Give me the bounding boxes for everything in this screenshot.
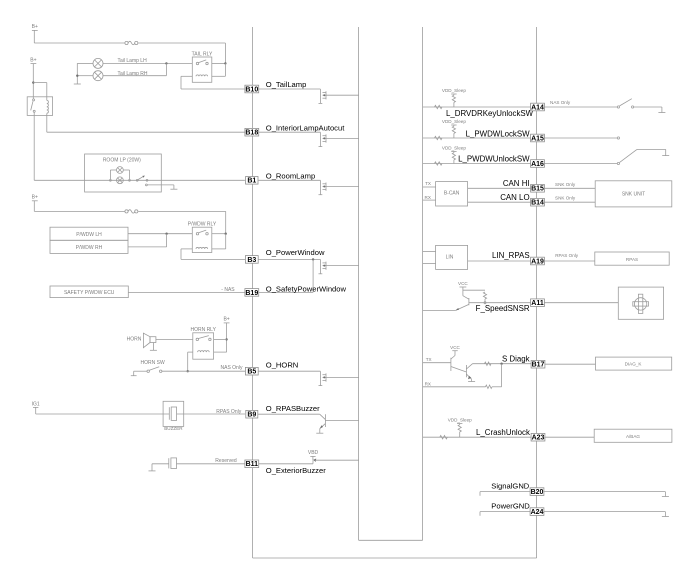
pin B5 <box>245 367 258 375</box>
wire diag output to pin B17 <box>473 363 532 365</box>
svg-text:LIN_RPAS: LIN_RPAS <box>492 251 530 260</box>
wire CAN HI to pin B15 <box>468 187 531 189</box>
power VCC (diag) <box>450 345 460 356</box>
lamp Tail Lamp RH <box>93 71 103 81</box>
wire room lamp row inside box <box>85 179 245 181</box>
svg-text:A24: A24 <box>531 509 544 516</box>
svg-text:O_TailLamp: O_TailLamp <box>266 80 307 89</box>
wire RX stub <box>423 199 436 201</box>
pin B18 <box>245 128 259 136</box>
power IG1 <box>32 401 40 407</box>
svg-text:VDD_Sleep: VDD_Sleep <box>442 146 466 151</box>
buzzer piezo element (reserved) <box>169 458 177 469</box>
wire door switch to ground <box>147 185 174 189</box>
svg-text:SAFETY P/WDW ECU: SAFETY P/WDW ECU <box>64 290 115 296</box>
svg-text:F_SpeedSNSR: F_SpeedSNSR <box>476 304 530 313</box>
pin B15 <box>531 185 545 193</box>
wire row A15 <box>423 137 531 139</box>
wire tail lamps left to ground <box>76 63 93 84</box>
box SNK UNIT <box>595 181 672 207</box>
wire pin B1 to room lamp driver gate <box>258 179 320 181</box>
wire horn switch to pin B5 <box>162 370 246 372</box>
resistor series diag TX <box>485 362 492 365</box>
resistor series A16 <box>435 162 443 165</box>
svg-text:SNK Only: SNK Only <box>555 196 576 201</box>
svg-text:RX: RX <box>425 381 431 386</box>
buzzer BUZZER <box>163 401 184 431</box>
wire fuse 2 to window relay common <box>138 211 225 233</box>
ground exterior buzzer <box>149 470 156 472</box>
relay HORN RLY <box>190 327 216 359</box>
pin A14 <box>531 103 545 111</box>
wire buzzer to pin B9 <box>177 413 246 415</box>
power VCC (speed sensor) <box>458 281 468 296</box>
svg-text:B14: B14 <box>531 200 544 207</box>
svg-text:L_PWDWUnlockSW: L_PWDWUnlockSW <box>458 155 530 164</box>
wire relay switch down to room lamp row <box>34 112 84 180</box>
svg-text:O_RPASBuzzer: O_RPASBuzzer <box>266 404 320 413</box>
wire LIN stub upper <box>423 250 436 252</box>
wire IG1 to buzzer <box>36 407 170 414</box>
wire B+ down to fuse feed <box>34 30 125 43</box>
svg-text:B-CAN: B-CAN <box>444 190 460 196</box>
wire window RH up to junction <box>128 234 167 247</box>
ground horn <box>150 349 157 351</box>
wire pin B18 to autocut driver gate <box>259 131 321 133</box>
transistor VBD switch arrow <box>313 459 316 462</box>
svg-text:B+: B+ <box>32 24 38 30</box>
wire window relay coil to pin B3 <box>181 249 246 260</box>
pin A11 <box>531 299 545 307</box>
svg-text:TX: TX <box>425 181 431 186</box>
wire relay coil to pin B18 <box>47 113 245 132</box>
wire PowerGND external <box>544 512 665 517</box>
wire A11 to sensor unit <box>544 302 618 304</box>
svg-text:Tail Lamp LH: Tail Lamp LH <box>118 58 148 64</box>
transistor Q7 speed sensor input <box>456 296 469 311</box>
transistor Q1 O_TailLamp driver <box>319 89 359 103</box>
pin A24 <box>530 508 544 516</box>
wire B15 to SNK UNIT <box>544 187 595 189</box>
op-amp U1 B-CAN transceiver <box>436 182 468 206</box>
pin A15 <box>531 134 545 142</box>
transistor Q9 diag driver <box>466 364 472 382</box>
svg-text:A/BAG: A/BAG <box>626 434 640 439</box>
ground window switch <box>662 155 669 157</box>
pin B10 <box>245 85 259 93</box>
node B+ branch <box>32 81 34 83</box>
node diag junction <box>500 363 502 365</box>
power VBD <box>308 450 319 460</box>
wire row A23 <box>423 436 531 438</box>
wire ECU bottom edge <box>253 557 537 559</box>
svg-text:B+: B+ <box>223 317 229 323</box>
svg-text:NAS Only: NAS Only <box>221 365 243 371</box>
wire CAN LO to pin B14 <box>468 201 531 203</box>
svg-text:DIAG_K: DIAG_K <box>625 362 643 367</box>
svg-text:VDD_Sleep: VDD_Sleep <box>442 119 466 124</box>
svg-text:A11: A11 <box>531 300 544 307</box>
svg-text:VBD: VBD <box>308 450 319 456</box>
wire pin B3 to window driver gate <box>258 258 320 260</box>
wire left column east edge / drain bus <box>358 27 360 540</box>
svg-text:RPAS Only: RPAS Only <box>555 253 579 258</box>
box ROOM LP (20W) <box>85 154 162 192</box>
wire tail lamp LH to relay <box>103 62 192 64</box>
svg-text:O_RoomLamp: O_RoomLamp <box>266 171 315 180</box>
svg-text:B11: B11 <box>246 461 259 468</box>
pin B11 <box>245 460 259 468</box>
pin B9 <box>246 410 258 418</box>
svg-text:RPAS: RPAS <box>626 257 638 262</box>
svg-text:- NAS: - NAS <box>221 287 235 293</box>
svg-text:VCC: VCC <box>450 345 460 350</box>
wire A15 to lock switch contact <box>544 137 617 139</box>
power B+ (power window feed) <box>32 195 38 201</box>
wire A19 to RPAS unit <box>544 260 594 262</box>
lamp room lamp upper <box>110 167 131 182</box>
svg-text:B+: B+ <box>32 195 38 201</box>
wire tail relay contact to B+ branch <box>212 62 227 76</box>
wire A23 to airbag unit <box>545 436 594 438</box>
wire ECU inner bottom notch <box>359 539 423 541</box>
wire A14 to key switch <box>544 106 617 108</box>
ground PowerGND <box>662 516 669 518</box>
power B+ (room lamp feed) <box>30 57 36 63</box>
svg-text:HORN: HORN <box>127 337 142 343</box>
transistor Q2 O_InteriorLampAutocut driver <box>319 132 359 146</box>
svg-text:S Diagk: S Diagk <box>502 355 530 364</box>
wire piezo to pin B11 <box>177 463 246 465</box>
svg-text:P/WDW RLY: P/WDW RLY <box>188 222 217 228</box>
svg-text:B10: B10 <box>245 86 258 93</box>
svg-text:B19: B19 <box>245 290 258 297</box>
svg-text:SNK Only: SNK Only <box>555 182 576 187</box>
svg-text:CAN HI: CAN HI <box>503 179 530 188</box>
op-amp U2 LIN transceiver <box>436 245 468 269</box>
svg-text:B3: B3 <box>247 257 256 264</box>
transistor Q4 O_PowerWindow driver <box>319 259 359 273</box>
label VDD_Sleep pull-up A14 / resistor <box>442 88 466 107</box>
power B+ (tail lamp feed) <box>32 24 38 30</box>
pin B20 <box>530 488 544 496</box>
svg-text:A16: A16 <box>531 161 544 168</box>
box SAFETY P/WDW ECU <box>50 286 128 298</box>
pin A19 <box>531 257 545 265</box>
pin B19 <box>245 289 259 297</box>
relay interior lamp cut relay <box>27 97 52 116</box>
svg-text:VCC: VCC <box>458 281 468 286</box>
pin B17 <box>531 360 545 368</box>
svg-text:O_ExteriorBuzzer: O_ExteriorBuzzer <box>266 466 326 475</box>
wire horn B+ to relay <box>214 323 228 352</box>
svg-text:B18: B18 <box>245 130 258 137</box>
pin A23 <box>531 433 545 441</box>
label VDD_Sleep pull-up A23 / resistor <box>448 418 472 438</box>
svg-text:Reserved: Reserved <box>215 458 237 464</box>
svg-text:ROOM LP (20W): ROOM LP (20W) <box>103 157 141 163</box>
svg-text:TAIL RLY: TAIL RLY <box>192 51 213 57</box>
box P/WDW RH motor <box>50 240 128 253</box>
box speed sensor unit <box>618 287 663 319</box>
label VDD_Sleep pull-up A15 / resistor <box>442 119 466 138</box>
wire SignalGND external <box>544 492 665 497</box>
pin B1 <box>246 177 258 185</box>
wire horn to relay <box>156 338 193 340</box>
pin A16 <box>531 160 545 168</box>
node window junction <box>165 233 167 235</box>
wire speed sensor to pin A11 <box>469 302 531 304</box>
wire TX stub <box>423 186 436 188</box>
svg-text:P/WDW LH: P/WDW LH <box>76 232 102 238</box>
svg-text:O_PowerWindow: O_PowerWindow <box>266 248 325 257</box>
svg-text:SignalGND: SignalGND <box>491 481 529 490</box>
fuse F1 tail lamp <box>125 41 138 44</box>
switch power window lock/unlock switch <box>617 149 665 164</box>
label VDD_Sleep pull-up A16 / resistor <box>442 146 466 164</box>
wire pin B11 to VBD switch <box>259 460 313 464</box>
wire tail lamp RH up to junction <box>103 63 166 75</box>
svg-text:O_InteriorLampAutocut: O_InteriorLampAutocut <box>266 123 345 132</box>
svg-text:SNK UNIT: SNK UNIT <box>622 192 645 198</box>
wire LIN to pin A19 <box>468 260 531 262</box>
resistor pull-up speed sensor <box>463 290 487 304</box>
wire A16 to unlock switch <box>544 163 617 165</box>
transistor Q5 O_HORN driver <box>319 371 359 385</box>
node tail lamp junction <box>165 62 167 64</box>
wire pin B9 to buzzer transistor base <box>258 413 320 415</box>
wire safety ECU to pin B19 <box>128 291 245 293</box>
svg-text:A19: A19 <box>531 258 544 265</box>
svg-text:B17: B17 <box>532 362 545 369</box>
svg-text:HORN RLY: HORN RLY <box>190 327 216 333</box>
pin B14 <box>531 198 545 206</box>
wire B+ down to branch node <box>32 64 34 99</box>
lamp Tail Lamp LH <box>93 58 103 68</box>
wire B14 to SNK UNIT <box>544 201 595 203</box>
resistor series A14 <box>435 105 443 108</box>
svg-text:RPAS Only: RPAS Only <box>216 409 241 415</box>
resistor series A23 <box>440 436 448 439</box>
svg-text:B15: B15 <box>531 186 544 193</box>
svg-text:PowerGND: PowerGND <box>491 502 530 511</box>
svg-text:L_CrashUnlock: L_CrashUnlock <box>476 428 530 437</box>
ground tail lamps <box>74 83 81 85</box>
svg-text:B1: B1 <box>247 178 256 185</box>
svg-text:LIN: LIN <box>446 255 454 261</box>
wire B+ down to fuse feed 2 <box>34 201 125 212</box>
wire ground to piezo <box>152 464 169 471</box>
svg-text:O_SafetyPowerWindow: O_SafetyPowerWindow <box>266 284 347 293</box>
svg-text:L_DRVDRKeyUnlockSW: L_DRVDRKeyUnlockSW <box>446 109 534 118</box>
svg-text:NAS Only: NAS Only <box>550 100 571 105</box>
power B+ (horn feed) <box>223 317 229 323</box>
wire right column west edge bus <box>422 27 424 540</box>
ground horn switch <box>131 375 137 377</box>
switch room lamp door switch <box>136 176 148 186</box>
svg-text:A14: A14 <box>531 104 544 111</box>
speaker horn <box>143 333 156 350</box>
svg-text:RX: RX <box>425 195 431 200</box>
wire speed sensor input from bus <box>423 309 456 311</box>
svg-text:VDD_Sleep: VDD_Sleep <box>448 418 472 423</box>
svg-text:TX: TX <box>426 357 432 362</box>
ground diag driver <box>468 381 475 383</box>
wire pin B5 to horn driver gate <box>258 370 320 372</box>
switch driver door key unlock switch <box>617 99 662 113</box>
node horn coil junction <box>187 370 189 372</box>
svg-text:BUZZER: BUZZER <box>164 426 183 431</box>
box A/BAG <box>594 429 672 442</box>
svg-text:CAN LO: CAN LO <box>500 193 529 202</box>
box DIAG_K <box>596 357 672 370</box>
wire window relay contact to B+ branch <box>212 233 227 249</box>
switch HORN SW <box>134 367 162 376</box>
relay P/WDW RLY <box>188 222 217 253</box>
svg-text:B+: B+ <box>30 57 36 63</box>
wire RX to diag junction / resistor <box>423 364 502 389</box>
wire row A16 <box>423 163 531 165</box>
svg-text:B5: B5 <box>247 369 256 376</box>
transistor Q8 diag TX <box>451 356 467 373</box>
wire horn relay coil to pin B5 row <box>188 352 193 371</box>
pin B3 <box>245 256 258 264</box>
svg-text:IG1: IG1 <box>32 401 40 407</box>
box RPAS <box>595 252 669 265</box>
wire B17 to DIAG_K connector <box>545 363 596 365</box>
wire LIN stub lower <box>423 262 436 264</box>
lamp room lamp lower <box>117 177 124 184</box>
wire ECU right bus (right column east edge) <box>536 27 538 558</box>
svg-text:P/WDW RH: P/WDW RH <box>76 245 103 251</box>
transistor Q3 O_RoomLamp driver <box>319 180 359 194</box>
wire PowerGND internal <box>480 512 530 516</box>
wire TX to diag transistor <box>423 362 451 364</box>
ground room lamp switch <box>170 188 177 190</box>
box P/WDW LH motor <box>50 227 128 240</box>
svg-text:VDD_Sleep: VDD_Sleep <box>442 88 466 93</box>
transistor Q6 O_RPASBuzzer driver <box>316 414 358 433</box>
wire branch to relay coil <box>33 83 47 101</box>
svg-text:A15: A15 <box>531 135 544 142</box>
wire SignalGND internal <box>480 492 530 496</box>
relay TAIL RLY <box>192 51 213 82</box>
svg-text:O_HORN: O_HORN <box>266 360 299 369</box>
wire pin B19 up to window gate node <box>259 259 313 292</box>
wire window LH to relay <box>128 233 192 235</box>
svg-text:B9: B9 <box>247 412 256 419</box>
wire pin B10 to tail lamp driver gate <box>259 88 321 90</box>
wire ECU left bus (left column west edge) <box>252 27 254 558</box>
svg-text:HORN SW: HORN SW <box>141 360 165 366</box>
wire tail relay coil to pin B10 <box>181 76 245 89</box>
wire row A14 <box>423 106 531 108</box>
svg-text:B20: B20 <box>531 489 544 496</box>
ground SignalGND <box>662 496 669 498</box>
wire fuse to tail relay common <box>138 43 225 63</box>
ground key unlock switch <box>658 112 665 114</box>
switch contact lock <box>617 137 619 139</box>
svg-text:A23: A23 <box>532 435 545 442</box>
resistor series A15 <box>435 136 443 139</box>
fuse F2 power window <box>125 210 138 213</box>
svg-text:L_PWDWLockSW: L_PWDWLockSW <box>466 129 531 138</box>
wire VBD switch to bus <box>315 459 359 461</box>
node power window gate node <box>312 258 314 260</box>
